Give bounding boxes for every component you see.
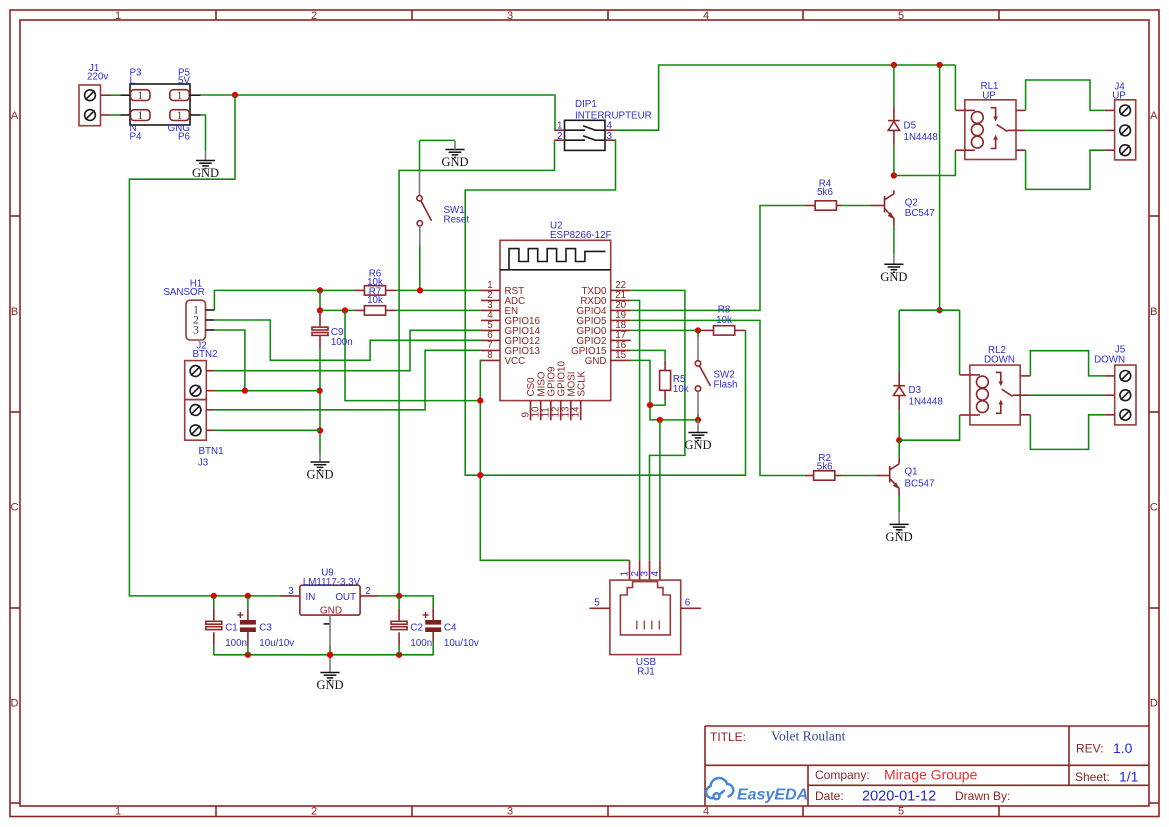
svg-text:1N4448: 1N4448 (904, 132, 939, 143)
svg-text:A: A (11, 110, 19, 122)
svg-text:BC547: BC547 (905, 208, 935, 219)
svg-text:3: 3 (640, 571, 651, 577)
svg-text:15: 15 (615, 350, 626, 361)
svg-text:10u/10v: 10u/10v (259, 638, 294, 649)
svg-text:GND: GND (306, 468, 333, 482)
svg-text:3: 3 (507, 805, 513, 817)
svg-text:10k: 10k (673, 384, 689, 395)
svg-text:OUT: OUT (335, 592, 356, 603)
svg-text:GND: GND (684, 438, 711, 452)
svg-text:GND: GND (886, 530, 913, 544)
svg-text:GND: GND (320, 605, 342, 616)
svg-text:1: 1 (137, 90, 143, 102)
svg-text:1.0: 1.0 (1113, 740, 1133, 756)
svg-text:3: 3 (507, 10, 513, 22)
svg-text:P4: P4 (130, 132, 143, 143)
svg-text:GND: GND (585, 356, 607, 367)
svg-text:5: 5 (594, 598, 600, 609)
svg-text:220v: 220v (87, 72, 108, 83)
svg-text:P6: P6 (178, 132, 191, 143)
svg-text:2020-01-12: 2020-01-12 (862, 789, 936, 805)
svg-text:10k: 10k (367, 295, 383, 306)
svg-text:C: C (11, 502, 19, 514)
svg-text:DOWN: DOWN (984, 355, 1015, 366)
svg-text:5: 5 (898, 10, 904, 22)
svg-text:SCLK: SCLK (576, 370, 587, 396)
svg-text:BC547: BC547 (905, 479, 935, 490)
svg-text:4: 4 (703, 10, 709, 22)
svg-text:2: 2 (311, 805, 317, 817)
svg-text:5k6: 5k6 (817, 187, 833, 198)
svg-text:REV:: REV: (1076, 742, 1104, 756)
svg-text:DOWN: DOWN (1094, 355, 1125, 366)
svg-text:L: L (130, 76, 136, 87)
svg-text:GND: GND (880, 270, 907, 284)
svg-text:C3: C3 (259, 623, 272, 634)
svg-text:1: 1 (115, 805, 121, 817)
svg-text:Q1: Q1 (905, 467, 918, 478)
svg-text:D: D (1150, 698, 1158, 710)
svg-text:1: 1 (177, 110, 183, 122)
svg-text:6: 6 (685, 598, 691, 609)
svg-text:Volet Roulant: Volet Roulant (771, 729, 846, 744)
svg-text:1: 1 (177, 90, 183, 102)
svg-text:Company:: Company: (815, 768, 870, 782)
svg-text:5k6: 5k6 (817, 462, 833, 473)
svg-text:Date:: Date: (815, 789, 844, 803)
svg-text:10u/10v: 10u/10v (444, 638, 479, 649)
svg-text:1N4448: 1N4448 (909, 397, 944, 408)
svg-text:C: C (1150, 502, 1158, 514)
svg-text:3: 3 (193, 325, 199, 337)
svg-text:TITLE:: TITLE: (710, 730, 746, 744)
svg-text:UP: UP (1112, 91, 1126, 102)
svg-text:B: B (1150, 306, 1157, 318)
svg-text:GND: GND (192, 166, 219, 180)
svg-text:SANSOR: SANSOR (163, 287, 204, 298)
svg-text:Reset: Reset (444, 215, 470, 226)
svg-text:2: 2 (311, 10, 317, 22)
svg-text:J3: J3 (198, 458, 209, 469)
svg-text:LM1117-3.3V: LM1117-3.3V (303, 577, 361, 588)
svg-text:C2: C2 (410, 623, 423, 634)
svg-text:C1: C1 (225, 623, 238, 634)
svg-text:4: 4 (703, 805, 709, 817)
svg-text:4: 4 (650, 571, 661, 577)
svg-text:D5: D5 (904, 121, 917, 132)
svg-text:IN: IN (306, 592, 316, 603)
svg-text:D: D (11, 698, 19, 710)
svg-text:Mirage Groupe: Mirage Groupe (884, 767, 978, 783)
svg-text:RJ1: RJ1 (637, 666, 654, 677)
svg-text:B: B (11, 306, 18, 318)
svg-text:A: A (1150, 110, 1158, 122)
svg-text:Drawn By:: Drawn By: (955, 789, 1010, 803)
svg-text:C4: C4 (444, 623, 457, 634)
svg-text:GND: GND (441, 155, 468, 169)
svg-text:100n: 100n (410, 638, 432, 649)
svg-text:100n: 100n (225, 638, 247, 649)
svg-text:Sheet:: Sheet: (1075, 770, 1110, 784)
svg-text:Flash: Flash (714, 380, 738, 391)
svg-text:1: 1 (137, 110, 143, 122)
svg-text:5: 5 (898, 805, 904, 817)
svg-text:10k: 10k (716, 315, 732, 326)
svg-text:3: 3 (607, 131, 613, 142)
svg-text:2: 2 (557, 131, 562, 142)
svg-text:14: 14 (571, 406, 582, 417)
svg-text:INTERRUPTEUR: INTERRUPTEUR (575, 111, 652, 122)
svg-text:BTN1: BTN1 (198, 446, 223, 457)
svg-text:DIP1: DIP1 (575, 99, 597, 110)
svg-text:D3: D3 (909, 385, 922, 396)
svg-text:5V: 5V (178, 76, 190, 87)
svg-text:BTN2: BTN2 (192, 349, 217, 360)
svg-text:ESP8266-12F: ESP8266-12F (550, 230, 612, 241)
svg-text:1/1: 1/1 (1119, 769, 1139, 785)
svg-text:1: 1 (115, 10, 121, 22)
svg-text:100n: 100n (331, 337, 353, 348)
svg-text:UP: UP (982, 91, 996, 102)
svg-text:8: 8 (487, 350, 493, 361)
svg-text:EasyEDA: EasyEDA (737, 787, 808, 804)
svg-text:GND: GND (316, 678, 343, 692)
svg-text:VCC: VCC (505, 356, 526, 367)
